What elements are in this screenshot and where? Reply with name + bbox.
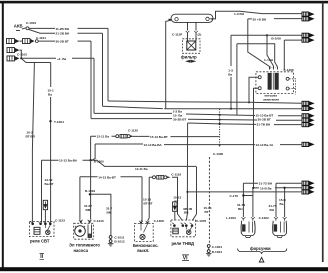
node dot x231 on y108.8 (230, 108, 232, 110)
wire «1-Вк to corner x95 (22, 57, 56, 59)
бензонасос pins (139, 221, 150, 224)
node dot on rail x253.5 at 15-В Ба (252, 187, 254, 189)
diamond flow marker under фильтр (185, 60, 196, 63)
svg-text:В-1019: В-1019 (85, 189, 95, 193)
connector out y14 (302, 12, 315, 17)
section mark Δ (259, 257, 264, 262)
svg-text:30-2В ВТ: 30-2В ВТ (258, 118, 271, 122)
wire pair2 lower fed from катушка riser x284.3 (284, 40, 302, 70)
wire 14-13 Ба-ВТ row y176.8 (80, 176, 142, 178)
wire форсунки net3 from conn y191.9 to x187.4 (188, 191, 302, 193)
brace under форсунки (238, 249, 287, 255)
node junction dot x267 (266, 34, 268, 36)
wire corner x142 down to бензонасос pin1 (141, 177, 142, 221)
node В-1019 dot (89, 193, 91, 195)
connector out y183.2 (302, 181, 315, 186)
реле ТНВД contact (186, 227, 192, 235)
svg-text:ВТ: ВТ (205, 210, 209, 214)
wire bus y120.2 from corner x109 (91, 119, 302, 121)
svg-text:ВТ-БЛ: ВТ-БЛ (26, 134, 35, 138)
connector out y18.6 (302, 16, 315, 21)
svg-text:30-2В ВТ: 30-2В ВТ (173, 118, 186, 122)
svg-text:15-12 Ба-ВА: 15-12 Ба-ВА (59, 159, 78, 163)
wire 30 +В ВН to pair1 lower (248, 18, 302, 20)
wire oval left lead down (166, 20, 171, 109)
реле ТНВД dashed box (171, 219, 207, 237)
connector out y103.5 (302, 101, 315, 106)
svg-text:C-111Р: C-111Р (172, 32, 182, 36)
svg-text:зажигания: зажигания (263, 98, 279, 102)
connector out y144.4 (302, 142, 315, 147)
ground stack C-1304 (206, 245, 222, 256)
arrow continuation symbol on реле СВТ pin3 wire (43, 200, 47, 222)
svg-text:C-1001: C-1001 (26, 21, 36, 25)
ballast resistor oval component top-center (169, 14, 214, 22)
wire катушка right pins dashed stub (289, 79, 296, 95)
battery АКБ terminal (14, 23, 26, 30)
connector out y115.8 (302, 113, 315, 118)
right edge connector symbols (302, 12, 315, 195)
connector out y120.2 (302, 118, 315, 123)
svg-text:б + -: б + - (270, 66, 276, 70)
катушка right pins (286, 77, 289, 80)
wire corner W4 down («1-Вк) x95 (93, 58, 95, 113)
wire corner x79.9 down to насос pin1 (79, 177, 81, 220)
svg-text:31-7З ВН: 31-7З ВН (259, 182, 273, 186)
connector out y191.9 (302, 190, 315, 195)
svg-text:C-1313: C-1313 (94, 219, 104, 223)
wire pair2 upper from x231 corner (231, 34, 302, 36)
wire V1 vertical 10-2 ВТ-БЛ (32, 63, 34, 223)
svg-text:ВВ: ВВ (184, 211, 189, 215)
svg-text:Ба: Ба (48, 93, 52, 97)
реле СВТ pins (30, 222, 52, 226)
svg-text:13-11 Ба: 13-11 Ба (97, 135, 110, 139)
svg-text:ВН: ВН (238, 207, 243, 211)
connector column C-1306 dotted (219, 109, 221, 147)
svg-text:ВМ: ВМ (107, 211, 112, 215)
svg-text:1-/ ВН: 1-/ ВН (264, 58, 274, 62)
svg-text:(2): (2) (198, 32, 202, 36)
svg-text:Эл топливного: Эл топливного (69, 242, 100, 247)
svg-text:В-1304: В-1304 (212, 250, 222, 254)
svg-text:13-11 Ба: 13-11 Ба (135, 167, 148, 171)
wire row3 down to C-1103 node (20, 50, 22, 58)
Эл насос motor circle (75, 226, 86, 237)
svg-text:21-2В ВН: 21-2В ВН (56, 32, 71, 36)
svg-text:C-1304: C-1304 (212, 245, 222, 249)
wire branch to ground stack x110.9 (91, 194, 111, 235)
svg-text:C-1076: C-1076 (196, 219, 206, 223)
реле ТНВД pins (172, 223, 193, 227)
svg-text:Б-1005: Б-1005 (94, 159, 104, 163)
svg-text:фильтр: фильтр (181, 54, 197, 59)
wire branch x276 down to injector2 pin1 (275, 183, 277, 217)
connector row 3 (7, 48, 20, 53)
wire bus y124.6 from dotted column (188, 123, 302, 125)
svg-text:30-2В ВТ: 30-2В ВТ (56, 40, 69, 44)
реле СВТ contact (45, 225, 50, 235)
wire форсунки 15-В Ба from conn y187.6 (253, 187, 302, 189)
node dot at (249,102.4) (248, 101, 250, 103)
wire corner x252.9 down to injector1 pin2 (252, 188, 254, 217)
wire branch x284.6 down to injector2 pin2 (284, 188, 286, 217)
node Б-1005 dot (89, 159, 91, 161)
wire 15-12 Ба-ВА row y160.2 (42, 160, 197, 166)
svg-text:15-13 Ба-ВТ: 15-13 Ба-ВТ (150, 135, 168, 139)
wire corner x196.5 down to реле ТНВД pin4 (192, 167, 196, 221)
svg-text:Бензонасос.: Бензонасос. (133, 243, 159, 248)
wire corner W3 down (30-2В) x91 (90, 41, 92, 119)
wire corner W1 down (11-2В) x109 (107, 28, 109, 101)
svg-text:Ба: Ба (228, 73, 232, 77)
connector C-1119 inline (153, 172, 182, 179)
svg-text:насоса: насоса (74, 248, 89, 253)
svg-text:C-1153: C-1153 (55, 218, 65, 222)
node dots on C-1306 column (219, 114, 221, 116)
connector out y108.3 (302, 106, 315, 111)
svg-text:Ба: Ба (280, 202, 284, 206)
svg-text:В-1012: В-1012 (114, 240, 124, 244)
svg-text:C-1002: C-1002 (259, 216, 269, 220)
svg-text:1-З ВН: 1-З ВН (234, 12, 245, 16)
реле СВТ dashed box (29, 218, 65, 236)
node С-176 junction dot (242, 194, 244, 196)
svg-text:C-1306: C-1306 (213, 152, 223, 156)
svg-text:13-12 Ба-1А: 13-12 Ба-1А (256, 143, 274, 147)
wire corner W2 down (21-2В) x104 (102, 33, 104, 106)
реле СВТ coil (34, 227, 40, 234)
wire y43.8 from riser x236.9 to катушка right top pin (237, 44, 278, 70)
wire 11-2В ВН (АКБ to corner x109) (29, 27, 55, 29)
connector column lower dotted to C-1304 (208, 157, 210, 244)
svg-text:ВТ: ВТ (174, 199, 178, 203)
катушка left pins (258, 76, 261, 79)
wire bus y115.8 from corner x104 (94, 112, 172, 114)
svg-text:форсунки: форсунки (250, 246, 271, 251)
svg-text:11-2В ВН: 11-2В ВН (56, 27, 70, 31)
svg-text:выкл.: выкл. (137, 248, 149, 253)
connector out y40.1 (302, 38, 315, 43)
wire V2 vertical from C-1103 (50, 63, 52, 88)
wire to connector pair1 upper (240, 11, 302, 13)
node junction dot C-1103 (20, 57, 22, 59)
svg-text:«1- Вк: «1- Вк (57, 57, 67, 61)
svg-text:C-1120: C-1120 (128, 128, 138, 132)
svg-text:реле СВТ: реле СВТ (30, 238, 50, 243)
svg-text:C-1306: C-1306 (284, 68, 294, 72)
svg-text:31-7В ВН: 31-7В ВН (257, 122, 272, 126)
connector pair row C-1101 (7, 39, 35, 44)
svg-text:ВТ-ВТ: ВТ-ВТ (144, 201, 153, 205)
svg-text:13-12 Ба-ВА: 13-12 Ба-ВА (144, 143, 163, 147)
wire катушка pin1 left down to bus y102.4 (249, 77, 258, 102)
svg-text:Ба-ВТ: Ба-ВТ (45, 182, 54, 186)
реле ТНВД arrow continuation symbol (173, 202, 177, 221)
svg-text:ВМ: ВМ (86, 208, 91, 212)
wire corner x150.6 down to бензонасос pin2 (148, 177, 150, 221)
wire bus y102.4 (to conn y103.5) (108, 101, 302, 103)
wire x267 down to coil center pin (267, 35, 274, 69)
фильтр dashed box (172, 23, 201, 54)
реле ТНВД coil (173, 228, 179, 234)
wire corner x243.4 down to injector1 pin1 (242, 183, 244, 217)
connector out y187.6 (302, 185, 315, 190)
Эл насос pins (79, 220, 92, 223)
wire 30-2В ВТ to corner x91 (38, 40, 55, 42)
svg-text:14-13 Ба-ВТ: 14-13 Ба-ВТ (98, 176, 116, 180)
wire x231 vertical (1-З Ба riser) (230, 35, 232, 66)
svg-text:C-1103: C-1103 (17, 53, 27, 57)
Эл насос pump channel (88, 225, 92, 238)
wire corner x95.1 down (92, 144, 95, 160)
svg-text:ВН: ВН (270, 208, 275, 212)
svg-text:реле ТНВД: реле ТНВД (172, 241, 195, 246)
катушка зажигания dashed box (256, 68, 294, 94)
node C-1001 circle (26, 27, 29, 30)
svg-text:C-1101: C-1101 (36, 36, 46, 40)
injector 2 (форсунка) (273, 217, 287, 237)
connector out y35.3 (302, 33, 315, 38)
wire 13-11 Ба row y136 (91, 135, 220, 137)
wire 21-2В ВН (diagonal from АКБ node) (29, 29, 55, 33)
ground stack C-1011 (108, 236, 125, 247)
wire bus y108.8 1-З Ба (from oval riser x164.3) (103, 106, 303, 109)
svg-text:АКБ: АКБ (14, 23, 23, 28)
svg-text:C-1119: C-1119 (171, 172, 181, 176)
node circle C-1101 (35, 40, 38, 43)
wire форсунки 31-7З ВН from conn y183.2 (243, 182, 302, 184)
connector row 4 C-1103 (7, 56, 20, 61)
wire C-1119 row y177.3 (149, 177, 182, 220)
svg-text:C-176: C-176 (230, 194, 239, 198)
wire corner x90.6 down to node Б-1005 (90, 136, 92, 160)
wire oval right lead up to connector 1-З ВН (214, 11, 241, 19)
svg-text:15-В Ба: 15-В Ба (260, 186, 272, 190)
svg-text:Т-1004: Т-1004 (54, 120, 64, 124)
connector C-1120 inline (116, 128, 138, 138)
wire форсунки net3 corner x187.4 down to реле ТНВД (186, 123, 187, 221)
wire corner x247.8 down to coil funnel (248, 19, 270, 70)
svg-text:C-1308: C-1308 (154, 219, 164, 223)
Эл насос dashed box (74, 219, 104, 239)
wire corner x41.5 down to реле СВТ pin2 (40, 160, 43, 223)
wire 13-12 row y144.5 (95, 143, 302, 146)
wire катушка pin2 left down long rail x253.5 (254, 88, 259, 188)
wire branch diagonal to V2 (22, 59, 51, 63)
бензонасос switch symbol (140, 224, 148, 239)
injector 1 (форсунка) (241, 217, 255, 237)
svg-text:L-1003: L-1003 (226, 216, 236, 220)
svg-text:Б-1/09: Б-1/09 (271, 37, 281, 41)
node T-1004 junction dot (49, 120, 51, 122)
wire x90.6 continuing down (В-1019) (90, 160, 92, 219)
connector out y124.6 (302, 122, 315, 127)
wire riser x236.9 down to bus y115.8 (236, 44, 238, 116)
бензонасос выкл dashed box (134, 219, 164, 242)
wire jumper y195.5 to x252.9 (245, 195, 253, 197)
ignition coil windings (268, 73, 279, 90)
svg-text:30 +В ВН: 30 +В ВН (253, 17, 267, 21)
